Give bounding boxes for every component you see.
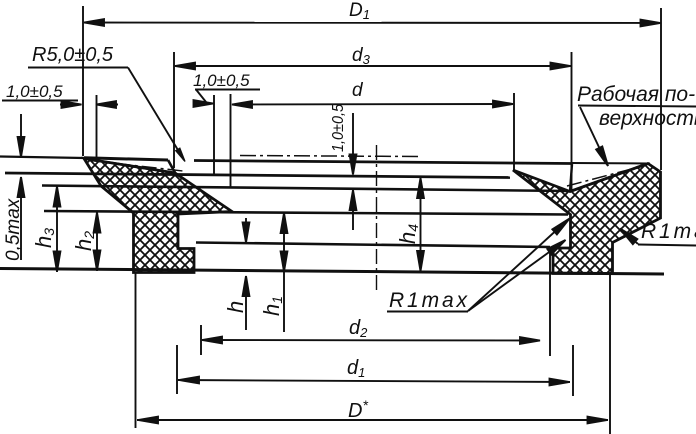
svg-text:d: d: [352, 80, 364, 101]
dimension h1: [281, 213, 288, 333]
line L3 (flange top face level): [5, 173, 510, 178]
svg-text:D*: D*: [348, 397, 368, 422]
label underline R5,0: [28, 67, 128, 69]
dimension 1,0 top-center (ext lines + outside arrows): [194, 90, 215, 175]
svg-text:D1: D1: [349, 0, 370, 22]
leader R1max bottom (two branches): [387, 216, 572, 312]
svg-text:h1: h1: [259, 296, 285, 316]
dimension h2: [94, 212, 101, 271]
svg-text:h4: h4: [395, 224, 421, 244]
svg-text:h3: h3: [31, 228, 57, 248]
dimension 0,5max vertical: [18, 114, 25, 260]
svg-text:0,5max: 0,5max: [3, 197, 24, 261]
line L5 (h2/h1 reference, step top level): [44, 211, 568, 215]
svg-text:Рабочая по-: Рабочая по-: [577, 83, 695, 106]
dimension d1: [177, 345, 573, 396]
svg-text:h: h: [223, 301, 248, 313]
dimension d2: [201, 250, 550, 356]
left working surface dash-dot mark: [90, 161, 183, 172]
svg-text:d2: d2: [349, 317, 368, 340]
dimension 1,0 top-left (ext lines + outside arrows): [60, 95, 118, 159]
left rim top face line (thick): [84, 158, 168, 160]
svg-text:R1max: R1max: [641, 220, 696, 243]
svg-text:1,0±0,5: 1,0±0,5: [330, 104, 347, 152]
line L6 (step level d2): [196, 243, 550, 248]
label underline rabochaya: [578, 106, 696, 107]
leader working surface: [580, 107, 611, 167]
svg-text:d3: d3: [352, 45, 371, 67]
svg-text:R5,0±0,5: R5,0±0,5: [32, 44, 114, 66]
axis dash-dot vertical center: [376, 145, 378, 292]
left working face W: [84, 159, 175, 174]
leader R5,0: [128, 68, 184, 161]
line L4 (h3 reference / inner face): [42, 186, 568, 192]
label underline 1,0 left: [2, 100, 78, 102]
dimension h (outside arrows): [243, 218, 250, 330]
svg-text:1,0±0,5: 1,0±0,5: [193, 71, 250, 90]
svg-text:d1: d1: [347, 357, 365, 380]
line L2 center flat top: [194, 161, 572, 164]
right body section hatched: [513, 164, 661, 274]
dimension d3: [174, 52, 572, 191]
dimension h3: [54, 186, 61, 272]
svg-text:R1max: R1max: [389, 289, 469, 312]
long reference line top (rim top extension to left edge): [0, 157, 84, 159]
right V steep face: [570, 164, 572, 192]
svg-text:1,0±0,5: 1,0±0,5: [6, 82, 63, 101]
left body section hatched: [84, 159, 232, 273]
right working surface dash-dot mark: [567, 166, 643, 186]
dimension D*: [136, 272, 611, 434]
dimension d: [231, 93, 515, 188]
leader R1max right: [618, 226, 696, 246]
label underline 1,0 center: [195, 89, 260, 91]
svg-text:h2: h2: [71, 231, 97, 251]
svg-text:верхность: верхность: [599, 107, 696, 130]
dimension D1: [83, 6, 661, 170]
center working surface dash-dot (over center flat): [240, 156, 420, 157]
left V steep face: [168, 160, 176, 174]
line L7 bottom face line full width: [0, 269, 664, 275]
dimension 1,0 rotated center (outside arrows): [350, 113, 357, 230]
right rim top line: [572, 162, 650, 165]
right working face: [570, 164, 648, 192]
dimension h4: [417, 178, 424, 272]
